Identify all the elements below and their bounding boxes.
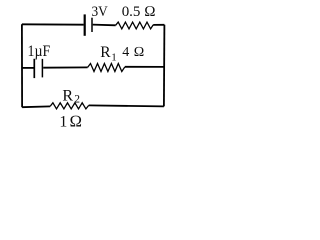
svg-text:R: R xyxy=(62,88,73,105)
wire right edge xyxy=(163,25,166,107)
wire resistor R1 to right edge xyxy=(125,66,164,68)
battery V1 short plate xyxy=(91,18,93,32)
wire left edge xyxy=(21,24,23,107)
capacitor C1 left plate xyxy=(33,59,35,78)
svg-text:Ω: Ω xyxy=(69,112,82,131)
wire top-left to battery xyxy=(22,23,84,25)
wire left edge to capacitor xyxy=(22,67,34,69)
svg-text:1: 1 xyxy=(59,114,67,131)
battery V1 long plate xyxy=(84,14,86,35)
wire resistor to top-right corner xyxy=(153,24,164,26)
wire capacitor to resistor R1 xyxy=(43,66,87,68)
svg-text:4: 4 xyxy=(122,45,129,60)
svg-text:3V: 3V xyxy=(92,4,108,20)
resistor R2 zigzag xyxy=(50,103,89,109)
svg-text:1: 1 xyxy=(111,51,117,63)
wire bottom left segment xyxy=(22,105,50,108)
wire battery to resistor 0.5 ohm xyxy=(93,24,116,27)
capacitor C1 right plate xyxy=(41,59,43,78)
svg-text:R: R xyxy=(100,44,111,61)
svg-text:Ω: Ω xyxy=(134,45,145,60)
svg-text:0.5 Ω: 0.5 Ω xyxy=(122,4,156,20)
wire bottom right segment xyxy=(89,105,164,106)
svg-text:2: 2 xyxy=(74,94,80,106)
resistor 0.5 ohm zigzag xyxy=(116,22,154,29)
svg-text:1µF: 1µF xyxy=(28,43,51,60)
resistor R1 zigzag xyxy=(88,64,125,72)
